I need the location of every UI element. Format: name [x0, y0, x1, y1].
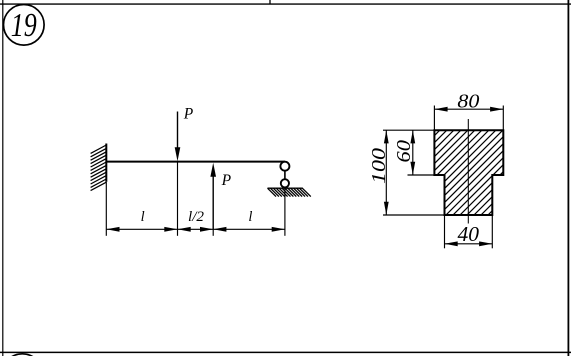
section hatching: [420, 50, 520, 283]
svg-text:80: 80: [457, 90, 479, 112]
fixed support wall: [91, 144, 107, 191]
svg-text:40: 40: [458, 222, 480, 246]
dim 40: extension lines: [444, 215, 446, 248]
svg-text:l: l: [141, 209, 145, 225]
dimension line l / l/2 / l: [106, 227, 285, 232]
link support: connecting bar: [284, 171, 286, 180]
extension line mid1 (down force): [177, 162, 179, 236]
dim 60: dimension line with arrows: [410, 130, 415, 175]
dim 100: dimension line with arrows: [384, 130, 389, 215]
beam: [106, 161, 285, 163]
section centerline: [467, 119, 469, 224]
next-row badge arc (bottom edge): [2, 354, 43, 356]
dim 80: extension lines: [433, 106, 435, 131]
svg-text:l: l: [248, 209, 252, 225]
svg-text:P: P: [183, 105, 194, 122]
link support: lower hinge circle: [281, 179, 289, 187]
svg-text:100: 100: [368, 148, 390, 184]
number badge 19: [4, 5, 45, 46]
force P up (at x=213.2): [210, 163, 216, 230]
ground hatch under support: [268, 188, 311, 196]
link support: upper hinge circle: [280, 162, 289, 171]
extension line right (support): [284, 188, 286, 236]
svg-text:60: 60: [393, 140, 415, 163]
dim 40: dimension line with arrows: [445, 241, 493, 246]
svg-text:19: 19: [11, 7, 37, 44]
dim 100: top extension line: [383, 129, 434, 131]
dim 60: lower extension line: [408, 174, 435, 176]
force P down (at x=177.5): [175, 112, 181, 162]
extension line left (wall): [105, 182, 107, 236]
svg-text:l/2: l/2: [188, 209, 204, 225]
cross-section outline: [420, 50, 520, 283]
svg-text:P: P: [221, 172, 232, 189]
extension line mid2 (up force): [212, 229, 214, 236]
dim 80: dimension line with arrows: [434, 107, 503, 112]
dim 100: bottom extension line: [383, 214, 445, 216]
